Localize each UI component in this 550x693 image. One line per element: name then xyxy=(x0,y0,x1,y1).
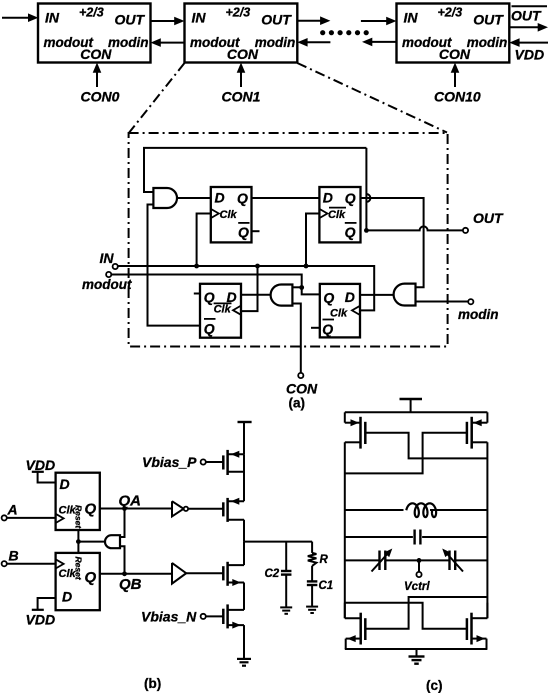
svg-text:Q: Q xyxy=(85,500,97,517)
resistor R xyxy=(308,553,317,566)
wire VDD-ground rail bottom of VCO xyxy=(345,648,488,650)
wire inverter to M2 gate xyxy=(188,508,223,510)
label Vbias_N xyxy=(141,609,197,625)
power VDD tee top of VCO xyxy=(400,399,423,412)
svg-text:QA: QA xyxy=(119,493,142,510)
label OUT xyxy=(473,210,504,226)
transistor M7 NMOS left crosscoupled xyxy=(345,603,366,649)
label QB xyxy=(119,576,142,593)
wire G1 output to D of U1 xyxy=(177,197,211,199)
wire feedback from Qbar of U3 to G1 lower input xyxy=(148,205,201,326)
divider cell block cell0 xyxy=(38,4,151,63)
inverter X1 xyxy=(172,501,188,516)
svg-text:Clk: Clk xyxy=(220,209,238,221)
node junction modout/U4-Q/G2 xyxy=(299,285,304,290)
node modout terminal xyxy=(106,272,111,277)
node Vctrl terminal xyxy=(416,572,421,577)
wire VDD into modin of cell10 xyxy=(509,38,548,47)
node input B terminal xyxy=(2,561,7,566)
wire ground stem VCO xyxy=(416,649,418,657)
ground C1 xyxy=(306,607,318,613)
node OUT terminal xyxy=(463,228,468,233)
label (c) xyxy=(426,678,443,693)
svg-text:VDD: VDD xyxy=(515,47,545,63)
svg-text:D: D xyxy=(60,476,70,492)
svg-text:(b): (b) xyxy=(144,676,161,691)
svg-text:modin: modin xyxy=(458,307,499,322)
capacitor C2 xyxy=(281,571,292,575)
wire M5 gate crosscouple to right node xyxy=(365,433,487,459)
svg-text:VDD: VDD xyxy=(26,612,56,628)
transistor M3 NMOS switch xyxy=(223,562,244,586)
ground C2 xyxy=(280,607,292,613)
varactor D1 xyxy=(372,549,393,572)
label B xyxy=(9,548,19,564)
svg-text:+2/3: +2/3 xyxy=(226,6,251,20)
svg-text:C1: C1 xyxy=(319,580,334,592)
wire G3 output to U4 D xyxy=(360,294,394,296)
svg-text:D: D xyxy=(62,589,72,605)
svg-text:Clk: Clk xyxy=(214,304,232,316)
svg-text:modout: modout xyxy=(82,277,132,292)
node input A terminal xyxy=(2,515,7,520)
svg-text:modin: modin xyxy=(108,35,149,50)
wire VDD to FFB D input xyxy=(32,598,56,610)
svg-text:D: D xyxy=(345,289,355,305)
node CON terminal xyxy=(298,373,303,378)
svg-text:Q: Q xyxy=(322,321,333,337)
wire G2 output to D of U3 xyxy=(241,294,271,296)
wire M1 drain to M2 source xyxy=(243,454,245,501)
label Vctrl xyxy=(404,581,430,593)
ground VCO xyxy=(409,657,425,664)
ellipsis dots between cells xyxy=(320,30,369,35)
label CON0 xyxy=(81,89,120,105)
and-gate G1 xyxy=(153,188,177,208)
svg-text:CON10: CON10 xyxy=(434,89,481,105)
wire B to FFB clock xyxy=(7,563,56,565)
wire inductor row xyxy=(345,509,488,511)
wire modout line to junction above G2 xyxy=(111,275,301,288)
wire U3 clock from IN line xyxy=(241,264,260,312)
capacitor C1 xyxy=(307,581,318,585)
wire arrow into IN cell10 xyxy=(361,17,397,26)
divider cell block cell1 xyxy=(185,4,298,63)
svg-text:VDD: VDD xyxy=(26,457,56,473)
wire G4 output to reset line xyxy=(78,541,105,543)
svg-text:CON1: CON1 xyxy=(222,89,261,105)
wire Vbias_N to M4 gate xyxy=(206,615,224,617)
svg-text:D: D xyxy=(323,190,333,206)
svg-text:Q: Q xyxy=(323,290,334,306)
svg-text:Q: Q xyxy=(237,190,248,206)
wire buffer to M3 gate xyxy=(186,572,223,574)
wire VDD rail top of VCO xyxy=(345,411,488,413)
svg-text:IN: IN xyxy=(404,10,419,26)
ground charge pump xyxy=(237,659,251,666)
wire C1 to ground xyxy=(311,585,313,607)
node Vbias_N terminal xyxy=(201,614,206,619)
label R xyxy=(320,554,329,566)
svg-text:CON: CON xyxy=(80,46,112,62)
svg-text:B: B xyxy=(9,548,19,564)
label C2 xyxy=(265,568,280,580)
wire QA line from FFA Q to inverter xyxy=(100,508,172,510)
wire R to C1 xyxy=(311,566,313,581)
wire Vctrl stem xyxy=(418,560,420,572)
wire capacitor row xyxy=(345,536,488,538)
svg-text:Vbias_P: Vbias_P xyxy=(142,454,197,470)
svg-text:Q: Q xyxy=(204,289,215,305)
label CON xyxy=(286,381,318,397)
svg-text:C2: C2 xyxy=(265,568,280,580)
wire M8 gate crosscouple to left node xyxy=(345,603,467,629)
svg-text:OUT: OUT xyxy=(473,210,504,226)
wire U2 Qbar feedback vertical with hop over Q line xyxy=(364,148,370,233)
svg-text:modin: modin xyxy=(467,35,508,50)
wire U2 Q down to G3 with hop over OUT line xyxy=(361,198,424,287)
svg-text:Q: Q xyxy=(238,224,249,240)
wire left tank node vertical xyxy=(344,442,346,618)
label (a) xyxy=(289,396,306,411)
wire modout cell1 to modin cell0 arrow xyxy=(151,38,185,47)
power VDD rail top of charge pump xyxy=(238,422,252,454)
wire CON10 arrow into cell10 xyxy=(451,63,460,88)
label CON1 xyxy=(222,89,261,105)
transistor M8 NMOS right crosscoupled xyxy=(467,603,488,649)
svg-text:CON: CON xyxy=(286,381,318,397)
svg-text:Q: Q xyxy=(345,190,356,206)
svg-text:D: D xyxy=(215,190,225,206)
svg-text:Q: Q xyxy=(85,569,97,586)
svg-text:OUT: OUT xyxy=(511,7,542,23)
wire QB line from FFB Q to buffer xyxy=(100,573,172,575)
and-gate G3 xyxy=(394,284,416,306)
flip-flop U4 xyxy=(320,284,360,338)
label C1 xyxy=(319,580,334,592)
node Vctrl junction xyxy=(417,558,422,563)
flip-flop FFA xyxy=(56,473,100,530)
svg-text:Clk: Clk xyxy=(328,209,346,221)
label VDD top xyxy=(26,457,56,473)
varactor D2 xyxy=(442,549,463,572)
wire U1 clock from IN line xyxy=(194,214,211,269)
svg-text:OUT: OUT xyxy=(473,11,504,27)
label modin xyxy=(458,307,499,322)
transistor M1 PMOS current source xyxy=(223,450,244,475)
flip-flop U1 xyxy=(211,187,252,242)
wire M4 source to ground xyxy=(243,625,245,659)
node Vbias_P terminal xyxy=(201,459,206,464)
label VDD xyxy=(515,47,545,63)
wire M7 gate crosscouple to right node xyxy=(365,597,487,629)
wire right tank node vertical xyxy=(486,442,488,618)
wire R branch xyxy=(311,542,313,553)
wire G2 lower input from CON xyxy=(292,304,300,373)
and-gate G2 xyxy=(271,285,293,306)
svg-text:Q: Q xyxy=(204,321,215,337)
wire M2 drain to output node xyxy=(243,520,245,542)
capacitor C3 xyxy=(415,530,421,545)
svg-text:IN: IN xyxy=(192,10,207,26)
label VDD bottom xyxy=(26,612,56,628)
flip-flop U2 xyxy=(319,187,360,242)
wire U2 clock from IN line xyxy=(304,214,320,269)
wire QB up to G4 input xyxy=(120,546,127,576)
wire QA down to G4 input xyxy=(120,506,127,537)
wire OUT line from U2 Qbar xyxy=(366,226,463,230)
svg-text:R: R xyxy=(320,554,329,566)
transistor M4 NMOS current source xyxy=(223,604,244,628)
svg-text:(c): (c) xyxy=(426,678,443,693)
svg-text:IN: IN xyxy=(45,10,60,26)
wire CON1 arrow into cell1 xyxy=(237,63,246,88)
transistor M2 PMOS switch xyxy=(223,498,244,522)
svg-text:Reset: Reset xyxy=(74,557,84,581)
transistor M6 PMOS right crosscoupled xyxy=(467,412,488,448)
wire U4 Qbar stub xyxy=(311,327,320,329)
detail cell dash-dot box xyxy=(129,133,448,347)
svg-text:A: A xyxy=(7,502,18,518)
wire M3 drain to output node xyxy=(243,542,245,566)
wire modin line to G3 lower input xyxy=(416,301,469,303)
wire OUT cell1 arrow xyxy=(297,16,330,25)
callout diagonal dash-dot right xyxy=(297,63,447,133)
label Vbias_P xyxy=(142,454,197,470)
wire output node to loop filter xyxy=(244,541,312,543)
svg-text:(a): (a) xyxy=(289,396,306,411)
callout diagonal dash-dot left xyxy=(129,63,184,133)
label (b) xyxy=(144,676,161,691)
svg-text:CON: CON xyxy=(227,46,259,62)
svg-text:IN: IN xyxy=(100,250,115,266)
wire C2 branch xyxy=(285,542,287,608)
flip-flop FFB xyxy=(56,553,100,610)
wire U3 Q stub xyxy=(194,293,200,295)
node modin terminal xyxy=(468,299,473,304)
wire IN line across cell to U4 clock xyxy=(118,266,374,310)
wire input arrow into IN of cell0 xyxy=(2,13,38,22)
wire OUT cell0 to IN cell1 arrow xyxy=(151,17,185,26)
svg-text:+2/3: +2/3 xyxy=(438,6,463,20)
svg-text:Clk: Clk xyxy=(330,308,348,320)
svg-text:Vctrl: Vctrl xyxy=(404,581,430,593)
wire modin cell1 arrow xyxy=(297,38,330,47)
svg-text:OUT: OUT xyxy=(261,11,292,27)
node IN terminal xyxy=(113,264,118,269)
svg-text:Reset: Reset xyxy=(74,505,84,529)
svg-text:OUT: OUT xyxy=(115,11,146,27)
wire M6 gate crosscouple to left node xyxy=(345,433,467,474)
svg-text:CON0: CON0 xyxy=(81,89,120,105)
label CON10 xyxy=(434,89,481,105)
wire feedback top line from Qbar of U2 to and-gate G1 xyxy=(144,148,366,192)
svg-text:CON: CON xyxy=(439,46,471,62)
wire M3 source to M4 drain xyxy=(243,583,245,610)
wire U4 Q to junction xyxy=(302,288,320,295)
wire CON0 arrow into cell0 xyxy=(93,63,102,88)
wire U1 Q to U2 D xyxy=(252,197,320,199)
svg-text:+2/3: +2/3 xyxy=(79,6,104,20)
flip-flop U3 xyxy=(200,284,241,338)
inductor L1 xyxy=(406,503,436,517)
transistor M5 PMOS left crosscoupled xyxy=(345,412,366,448)
divider cell block cell10 xyxy=(397,4,510,63)
wire junction to G2 upper input xyxy=(292,286,301,288)
wire modout cell10 arrow xyxy=(362,38,397,47)
label IN xyxy=(100,250,115,266)
wire varactor row xyxy=(345,559,488,561)
svg-text:Vbias_N: Vbias_N xyxy=(141,609,197,625)
wire Vbias_P to M1 gate xyxy=(206,461,224,463)
svg-text:modin: modin xyxy=(255,35,295,50)
label QA xyxy=(119,493,142,510)
label modout xyxy=(82,277,132,292)
svg-text:Q: Q xyxy=(345,224,356,240)
wire A to FFA clock xyxy=(7,517,56,519)
and-gate G4 xyxy=(105,535,120,548)
svg-text:QB: QB xyxy=(119,576,142,593)
wire VDD to FFA D input xyxy=(32,472,56,483)
label A xyxy=(7,502,18,518)
wire OUT output arrow with overline label xyxy=(509,6,548,31)
wire reset line between flip-flops xyxy=(76,530,81,553)
buffer X2 xyxy=(172,563,186,584)
wire U1 Qbar stub xyxy=(252,230,260,232)
